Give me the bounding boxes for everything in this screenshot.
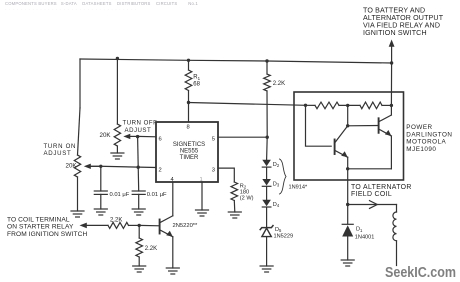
- brace 1N914 group: [280, 159, 308, 194]
- svg-text:0.01 μF: 0.01 μF: [110, 192, 130, 198]
- ground C1: [94, 209, 107, 215]
- wire mid rail to Q1 collector node: [347, 105, 349, 125]
- node emitter junction: [346, 167, 349, 170]
- ground R2: [228, 212, 241, 218]
- wire pin 1 to ground: [201, 182, 203, 210]
- svg-text:D5: D5: [275, 227, 282, 233]
- svg-text:1N4001: 1N4001: [355, 234, 375, 240]
- svg-text:3: 3: [212, 167, 215, 173]
- node rail/R1: [187, 59, 190, 62]
- wire emitter bottom bus: [348, 168, 392, 170]
- svg-text:. . . . . . . . . . . . . . .: . . . . . . . . . . . . . . . . . . . . …: [5, 7, 137, 11]
- text turn off adjust: [123, 120, 158, 134]
- wire to alternator field coil (right arrow): [348, 201, 397, 209]
- svg-text:FROM IGNITION SWITCH: FROM IGNITION SWITCH: [7, 231, 88, 238]
- node pin6/divider column: [136, 135, 139, 138]
- svg-text:20K: 20K: [66, 163, 78, 170]
- resistor darlington base left: [315, 102, 339, 109]
- svg-text:TO ALTERNATOR: TO ALTERNATOR: [351, 184, 412, 191]
- pin 6 label: [159, 137, 162, 143]
- svg-text:TURN ON: TURN ON: [44, 143, 77, 150]
- text turn on adjust: [44, 143, 77, 157]
- wire Q2 base: [348, 125, 379, 127]
- wire pin 3 to R2: [218, 168, 234, 182]
- ground Q3 emitter: [166, 268, 179, 274]
- diode D4 1N914: [262, 200, 280, 209]
- transistor Q3 2N5220: [160, 216, 198, 237]
- node output junction: [346, 203, 349, 206]
- inductor field coil: [393, 205, 397, 266]
- svg-text:IGNITION SWITCH: IGNITION SWITCH: [363, 29, 427, 37]
- wire pin 4 to Q3 collector: [172, 182, 174, 216]
- capacitor C1 0.01uF: [94, 166, 129, 209]
- ground turn-on pot: [71, 211, 84, 217]
- node pin5/diode chain: [266, 136, 269, 139]
- resistor R2 180 2W: [231, 182, 254, 212]
- svg-text:TO COIL TERMINAL: TO COIL TERMINAL: [7, 217, 70, 224]
- wire wiper column down to C2: [138, 137, 139, 191]
- zener D5 1N5229: [260, 226, 293, 240]
- svg-text:2.2K: 2.2K: [110, 218, 122, 224]
- wire base junction to Q3 base: [139, 224, 159, 226]
- svg-text:1N914*: 1N914*: [289, 185, 308, 191]
- wire R1 node to darlington rail: [189, 103, 306, 106]
- svg-text:FIELD COIL: FIELD COIL: [351, 191, 392, 198]
- svg-text:D4: D4: [273, 202, 280, 208]
- text power darlington: [406, 124, 452, 153]
- node darlington right: [390, 104, 393, 107]
- wire pin 2 to turn-on wiper: [90, 166, 156, 167]
- wire Q2 emitter down: [390, 136, 392, 169]
- node Q1 collector / Q2 base: [346, 124, 349, 127]
- ground turn-off pot: [111, 153, 124, 159]
- wire pin 5 to diode chain: [218, 136, 267, 138]
- transistor Q1 (darlington driver): [335, 126, 348, 158]
- svg-text:POWER: POWER: [406, 124, 432, 131]
- potentiometer turn-on 20K: [66, 155, 101, 177]
- transistor Q2 (darlington output): [379, 115, 392, 136]
- svg-text:1N5229: 1N5229: [274, 234, 294, 240]
- node darlington middle: [346, 104, 349, 107]
- ground pin 1: [196, 210, 209, 216]
- node rail/2.2K: [265, 59, 268, 62]
- wire rail into darlington: [390, 63, 392, 105]
- resistor 2.2K to ground: [136, 225, 157, 266]
- wire Q1 emitter down: [347, 157, 349, 169]
- node base junction: [138, 224, 141, 227]
- ground 2.2K: [133, 266, 146, 272]
- ground diode chain: [260, 266, 273, 272]
- node pin2 wire junction: [137, 166, 140, 169]
- wire Q1 base feed: [306, 105, 332, 146]
- svg-text:NE555: NE555: [180, 148, 199, 154]
- arrow to battery (up): [389, 40, 395, 64]
- note TO ALTERNATOR FIELD COIL: [351, 184, 412, 198]
- wire pin 6 to turn-off wiper: [138, 135, 156, 137]
- wire turn-off pot to ground: [116, 146, 118, 153]
- svg-text:ADJUST: ADJUST: [125, 127, 152, 134]
- wire darlington output down: [347, 169, 349, 205]
- wire left rail to turn-on pot: [78, 59, 81, 155]
- capacitor C2 0.01uF: [132, 191, 167, 209]
- page header breadcrumb: [5, 1, 198, 11]
- node rail/darlington feed: [390, 61, 393, 64]
- note TO BATTERY text: [363, 7, 444, 37]
- svg-text:2.2K: 2.2K: [145, 246, 157, 252]
- diode D2 1N914: [262, 160, 280, 168]
- svg-text:ON STARTER RELAY: ON STARTER RELAY: [7, 224, 74, 231]
- wire R1 node to pin 8: [188, 103, 190, 123]
- diode D3 1N914: [262, 179, 280, 188]
- svg-text:TURN OFF: TURN OFF: [123, 120, 158, 127]
- IC U1 Signetics NE555 timer: [156, 122, 218, 182]
- svg-text:6: 6: [159, 137, 162, 143]
- svg-text:2N5220**: 2N5220**: [173, 223, 199, 229]
- node darlington left: [304, 104, 307, 107]
- resistor 2.2K (supply to diode chain): [264, 61, 285, 137]
- svg-text:COMPONENTS BUYERS S-DATA: COMPONENTS BUYERS S-DATA DATASHEETS DIST…: [5, 1, 198, 6]
- pin 5 label: [212, 137, 215, 143]
- svg-text:2.2K: 2.2K: [273, 81, 285, 87]
- logo SeekIC.com: [385, 265, 456, 281]
- resistor darlington base right: [360, 102, 382, 109]
- svg-text:(2 W): (2 W): [240, 195, 254, 201]
- svg-text:5: 5: [212, 137, 215, 143]
- node C1 top: [99, 165, 102, 168]
- svg-text:2: 2: [159, 167, 162, 173]
- resistor R1 68: [185, 60, 200, 102]
- pin 4 label: [171, 177, 175, 183]
- node rail/turn-off branch: [116, 57, 119, 60]
- svg-text:20K: 20K: [100, 132, 112, 139]
- diode D1 1N4001: [342, 205, 374, 261]
- svg-text:TIMER: TIMER: [180, 155, 199, 161]
- svg-text:D1: D1: [356, 227, 363, 233]
- svg-text:R1: R1: [193, 75, 200, 81]
- svg-text:68: 68: [193, 82, 200, 88]
- wire diode chain: [266, 137, 269, 266]
- svg-text:D2: D2: [273, 162, 280, 168]
- svg-text:SeekIC.com: SeekIC.com: [385, 265, 456, 281]
- note TO COIL TERMINAL text: [7, 217, 88, 239]
- wire Q2 collector up: [390, 105, 392, 115]
- node R1 bottom: [187, 101, 190, 104]
- pin 1 label: [200, 177, 203, 183]
- svg-text:SIGNETICS: SIGNETICS: [173, 142, 205, 148]
- wire turn-off branch vertical: [116, 59, 118, 125]
- resistor 2.2K series (base): [108, 218, 139, 229]
- ground D1: [341, 260, 354, 266]
- wire Q3 emitter to ground: [172, 237, 174, 268]
- pin 8 label: [187, 125, 190, 131]
- svg-text:MJE1090: MJE1090: [406, 146, 436, 153]
- potentiometer turn-off 20K: [100, 124, 138, 146]
- svg-text:DARLINGTON: DARLINGTON: [406, 131, 452, 138]
- svg-text:0.01 μF: 0.01 μF: [147, 192, 167, 198]
- pin 3 label: [212, 167, 215, 173]
- ground C2: [132, 209, 145, 215]
- pin 2 label: [159, 167, 162, 173]
- wire turn-on pot to ground: [77, 177, 79, 211]
- svg-text:ADJUST: ADJUST: [44, 150, 72, 157]
- svg-text:MOTOROLA: MOTOROLA: [406, 139, 446, 146]
- wire darlington internal rail: [306, 104, 392, 106]
- svg-text:8: 8: [187, 125, 190, 131]
- wire to starter relay (left arrow): [80, 223, 109, 229]
- module box power darlington: [294, 92, 404, 180]
- svg-text:D3: D3: [273, 182, 280, 188]
- wire top supply rail: [80, 59, 392, 63]
